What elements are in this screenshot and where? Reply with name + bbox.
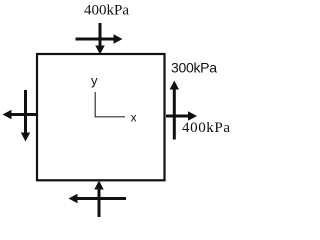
svg-text:400kPa: 400kPa: [84, 3, 129, 19]
svg-text:y: y: [91, 73, 98, 88]
svg-text:300kPa: 300kPa: [171, 60, 217, 76]
svg-text:400kPa: 400kPa: [182, 120, 231, 136]
svg-text:x: x: [131, 112, 137, 124]
